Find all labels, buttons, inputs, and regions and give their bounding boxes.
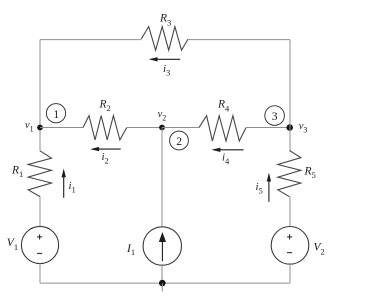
bottom junction dot — [159, 280, 166, 287]
node v1 junction dot — [37, 125, 43, 131]
svg-text:i2: i2 — [102, 151, 109, 166]
svg-text:R1: R1 — [11, 165, 23, 180]
wire V2 to bottom — [289, 264, 291, 283]
wire R1 to V1 source — [39, 197, 41, 227]
svg-text:R3: R3 — [159, 13, 171, 28]
svg-text:1: 1 — [53, 109, 59, 121]
bottom wire — [40, 282, 290, 284]
wire v2 stem down to I1 — [161, 128, 163, 227]
svg-text:v1: v1 — [25, 120, 34, 134]
current arrow i4 — [212, 148, 244, 152]
current arrow i5 — [267, 173, 271, 202]
V1 plus sign — [37, 234, 42, 239]
resistor R1 — [28, 151, 51, 197]
V1 minus sign — [37, 252, 42, 254]
wire R4 to v3 — [246, 127, 290, 129]
wire right vertical (top to v3) — [289, 40, 291, 128]
svg-text:R4: R4 — [217, 99, 230, 114]
svg-text:v2: v2 — [158, 109, 167, 123]
wire R2 to v2 — [127, 127, 162, 129]
resistor R3 — [141, 27, 188, 51]
svg-text:V2: V2 — [314, 242, 325, 257]
wire V1 to bottom — [39, 264, 41, 284]
node 3 circled number — [265, 106, 285, 126]
svg-text:i1: i1 — [69, 180, 76, 195]
I1 internal up arrow — [159, 232, 166, 261]
current arrow i1 — [62, 169, 66, 198]
V2 plus sign — [287, 234, 292, 239]
current arrow i3 — [149, 57, 181, 61]
wire v1 to R2 — [40, 127, 83, 129]
svg-text:v3: v3 — [299, 121, 308, 135]
svg-text:i3: i3 — [163, 63, 170, 78]
node v3 junction dot — [286, 124, 293, 131]
wire top-left horizontal segment — [40, 39, 141, 41]
wire left vertical (v1 to R1) — [39, 128, 41, 151]
svg-text:I1: I1 — [126, 243, 135, 257]
V2 minus sign — [287, 252, 292, 254]
resistor R2 — [83, 116, 127, 140]
wire v3 to R5 — [289, 128, 291, 151]
svg-text:i5: i5 — [256, 181, 263, 196]
wire v2 to R4 — [162, 127, 199, 129]
svg-text:R5: R5 — [304, 166, 316, 181]
svg-text:i4: i4 — [222, 152, 229, 167]
svg-text:V1: V1 — [7, 237, 18, 252]
wire left vertical (top to node v1) — [39, 40, 41, 128]
svg-text:2: 2 — [176, 136, 182, 148]
wire top-right horizontal segment — [188, 39, 290, 41]
resistor R4 — [199, 116, 246, 141]
wire R5 to V2 source — [289, 197, 291, 227]
svg-text:3: 3 — [272, 111, 278, 123]
resistor R5 — [278, 151, 301, 197]
current source I1 — [143, 227, 181, 265]
svg-text:R2: R2 — [99, 99, 111, 114]
node 1 circled number — [46, 104, 65, 123]
current arrow i2 — [90, 147, 121, 151]
reference stub below bottom junction — [161, 283, 163, 292]
node 2 circled number — [170, 131, 189, 150]
voltage source V2 — [271, 227, 309, 265]
voltage source V1 — [21, 226, 58, 263]
node v2 junction dot — [159, 125, 165, 131]
wire I1 to bottom junction — [161, 265, 163, 283]
